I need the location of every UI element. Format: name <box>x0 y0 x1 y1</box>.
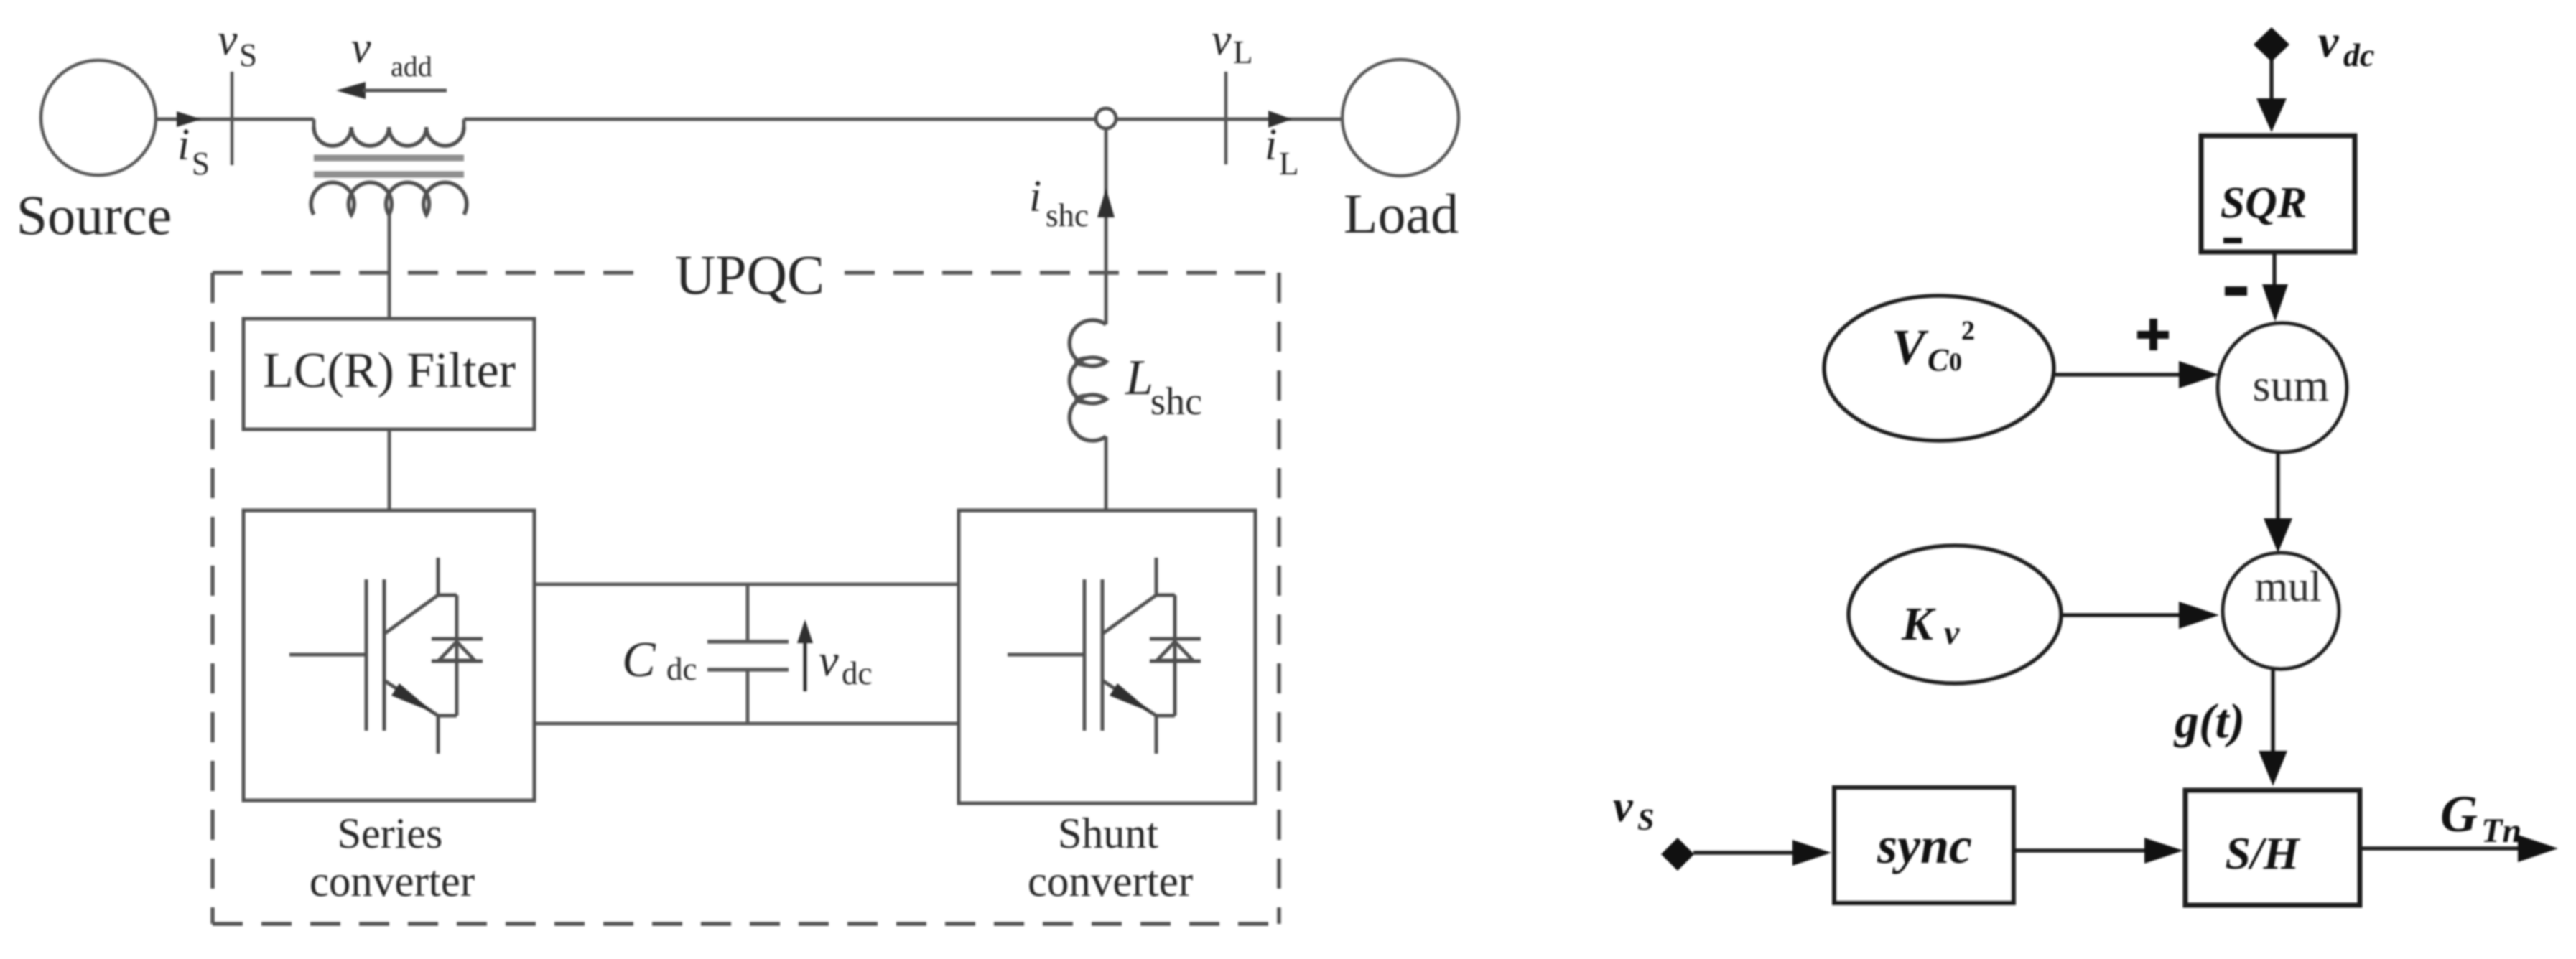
svg-text:SQR: SQR <box>2221 179 2307 228</box>
svg-text:v: v <box>1613 782 1634 831</box>
svg-text:G: G <box>2440 785 2478 843</box>
svg-text:converter: converter <box>1028 858 1193 906</box>
svg-text:L: L <box>1125 350 1153 406</box>
svg-text:L: L <box>1279 146 1299 182</box>
svg-text:mul: mul <box>2254 563 2321 610</box>
svg-text:Shunt: Shunt <box>1058 810 1158 857</box>
svg-text:sum: sum <box>2253 360 2330 411</box>
svg-text:S: S <box>1637 804 1654 837</box>
svg-text:Source: Source <box>17 184 172 246</box>
svg-text:LC(R) Filter: LC(R) Filter <box>263 343 516 398</box>
svg-text:v: v <box>819 637 839 686</box>
svg-text:v: v <box>351 24 371 72</box>
svg-text:add: add <box>391 50 432 83</box>
svg-text:UPQC: UPQC <box>675 243 824 306</box>
svg-text:v: v <box>218 16 238 65</box>
svg-text:S: S <box>192 146 210 182</box>
svg-text:sync: sync <box>1877 817 1972 874</box>
svg-text:i: i <box>1029 172 1041 221</box>
svg-text:v: v <box>1944 614 1960 652</box>
svg-text:S: S <box>239 37 257 73</box>
svg-text:v: v <box>1212 16 1232 65</box>
svg-text:converter: converter <box>310 858 475 906</box>
svg-text:dc: dc <box>666 651 697 687</box>
svg-text:2: 2 <box>1961 316 1975 346</box>
svg-text:V: V <box>1892 320 1929 375</box>
svg-text:L: L <box>1233 34 1253 70</box>
svg-text:Tn: Tn <box>2481 812 2521 850</box>
svg-text:C: C <box>1928 342 1949 378</box>
svg-text:v: v <box>2318 16 2339 67</box>
svg-text:g(t): g(t) <box>2173 693 2245 748</box>
svg-text:S/H: S/H <box>2225 828 2300 879</box>
svg-text:shc: shc <box>1150 380 1202 423</box>
svg-text:shc: shc <box>1046 197 1089 233</box>
svg-text:Load: Load <box>1344 182 1459 245</box>
svg-text:K: K <box>1901 598 1936 650</box>
svg-text:i: i <box>1265 121 1277 169</box>
svg-text:i: i <box>177 121 190 169</box>
svg-text:dc: dc <box>842 655 872 691</box>
svg-text:C: C <box>622 632 656 688</box>
svg-text:dc: dc <box>2343 37 2374 73</box>
svg-text:Series: Series <box>338 810 443 857</box>
svg-text:0: 0 <box>1949 347 1962 376</box>
